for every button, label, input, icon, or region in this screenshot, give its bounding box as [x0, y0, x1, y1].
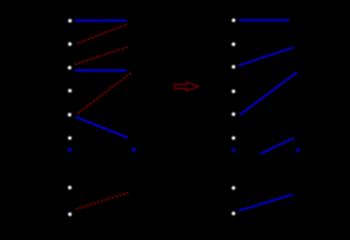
right diagram: blue ring left	[232, 149, 235, 152]
left diagram: red dashed line A from dot L2 up-right	[77, 24, 128, 43]
left diagram: blue horizontal line from dot L1	[75, 19, 126, 21]
left diagram: blue ring left at row between L6 and L7	[68, 148, 71, 151]
right diagram: dot R8	[232, 212, 236, 216]
right diagram: dot R2	[232, 42, 236, 46]
left diagram: dot L2	[68, 42, 72, 46]
left diagram: red dashed line F from dot L8 up-right	[76, 193, 129, 210]
right diagram: dot R6	[232, 136, 236, 140]
left diagram: dot L5	[68, 113, 72, 117]
right diagram: dot R1	[232, 19, 236, 23]
right diagram: blue diagonal from dot R3 up-right	[239, 48, 293, 66]
left diagram: blue ring right	[133, 148, 136, 151]
right diagram: blue diagonal from dot R8 up-right	[239, 195, 292, 211]
left diagram: red dashed line C from dot L5 steep up-right	[78, 73, 132, 114]
left diagram: red dashed line B from dot L3 up-right	[75, 47, 129, 65]
left diagram: dot L7	[68, 186, 72, 190]
left diagram: dot L4	[68, 89, 72, 93]
left diagram: dot L1	[68, 19, 72, 23]
right diagram: blue ring right	[296, 149, 299, 152]
right diagram: dot R3	[232, 65, 236, 69]
right diagram: blue steep diagonal from dot R5 up-right	[241, 73, 297, 114]
left diagram: dot L6	[68, 136, 72, 140]
left diagram: blue horizontal line 2 at row 3	[75, 69, 126, 71]
right diagram: dot R4	[232, 90, 236, 94]
right diagram: dot R5	[232, 112, 236, 116]
right diagram: dot R7	[232, 186, 236, 190]
left diagram: dot L8	[68, 212, 72, 216]
left diagram: blue diagonal line D from dot L5 down-right	[77, 117, 129, 138]
left diagram: dot L3	[68, 66, 72, 70]
right diagram: short blue diagonal near rings	[261, 138, 294, 154]
arrow: hollow dark-red double arrow between diagrams	[175, 82, 199, 91]
right diagram: blue horizontal line from dot R1	[239, 19, 290, 21]
